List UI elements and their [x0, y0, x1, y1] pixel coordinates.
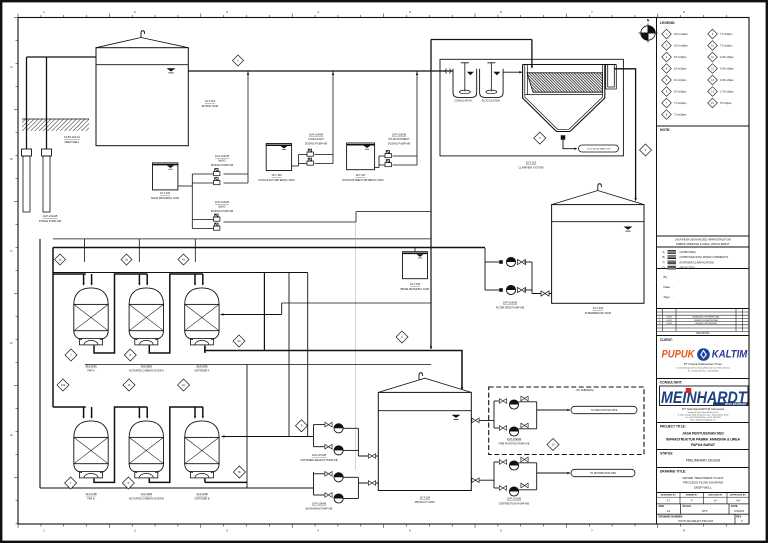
wire: NaOCl suction manifold [178, 185, 192, 187]
svg-text:(REJECTED): (REJECTED) [680, 266, 696, 270]
svg-text:0.45 m3/jam: 0.45 m3/jam [720, 68, 734, 71]
svg-text:INFRA INDONESIA: INFRA INDONESIA [725, 403, 746, 406]
clarifier tank [523, 65, 617, 132]
svg-text:7.5 m3/jam: 7.5 m3/jam [674, 114, 686, 117]
legend item 1 [662, 29, 672, 39]
svg-text:PABRIK AMMONIA & UREA, PAPUA B: PABRIK AMMONIA & UREA, PAPUA BARAT [676, 242, 730, 246]
wire: bypass down line [430, 71, 432, 349]
legend item 2 [662, 41, 672, 51]
pump 19-P-108A/B backwash pumps [325, 471, 332, 476]
deep well 1 casing [22, 149, 32, 156]
wire: regent pump manifolds [314, 424, 325, 426]
svg-text:19-F-102B: 19-F-102B [141, 493, 153, 496]
wire: softener outlet [204, 478, 206, 482]
svg-text:02/24: 02/24 [667, 320, 673, 322]
wire: main raw water line [188, 70, 453, 72]
vent intermediate tank [598, 184, 602, 191]
svg-text:SOFTENER REGENT PUMP A/B: SOFTENER REGENT PUMP A/B [300, 459, 337, 462]
svg-text:INTERMEDIATE TANK: INTERMEDIATE TANK [585, 311, 612, 315]
svg-text:Date: Date [664, 285, 671, 289]
svg-text:CHECKED BY: CHECKED BY [708, 495, 723, 497]
svg-text:19-T-108: 19-T-108 [410, 283, 421, 286]
svg-text:03/24: 03/24 [667, 317, 673, 319]
wire: fire pump piping [471, 419, 494, 421]
svg-text:A: A [663, 250, 665, 254]
svg-text:REVISIONS: REVISIONS [696, 332, 709, 335]
svg-text:DATE: DATE [731, 505, 738, 508]
svg-text:PMF A: PMF A [87, 370, 95, 373]
legend item 9 [708, 29, 718, 39]
svg-text:16.5 m3/jam: 16.5 m3/jam [674, 45, 688, 48]
svg-text:TO SLUDGE TANK STP: TO SLUDGE TANK STP [587, 147, 611, 150]
svg-text:Email : info@meinhardtgroup.co: Email : info@meinhardtgroup.com [690, 419, 716, 422]
svg-text:STATUS:: STATUS: [660, 452, 673, 456]
svg-text:PRODUCT TANK: PRODUCT TANK [415, 500, 435, 504]
tank 19-T-105 NaOCl metering tank [153, 163, 178, 190]
legend item 3 [662, 52, 672, 62]
svg-text:TO DISTRIBUTION PIPE: TO DISTRIBUTION PIPE [590, 473, 616, 475]
wire: coagulant suction [292, 165, 299, 167]
wire: pH discharge [393, 155, 418, 157]
node diamond 1 [233, 55, 244, 66]
svg-text:19-P-108A/B: 19-P-108A/B [312, 503, 327, 506]
wire: filter feed suction [532, 293, 552, 295]
svg-text:NaOCl METERING TANK: NaOCl METERING TANK [151, 197, 180, 200]
level mark intake tank [167, 68, 176, 73]
svg-text:7.5 m3/jam: 7.5 m3/jam [720, 45, 732, 48]
wire: vessel 1 to 2 row [94, 274, 147, 353]
svg-text:DOSING PUMP A/B: DOSING PUMP A/B [305, 143, 328, 146]
svg-text:19-T-101: 19-T-101 [205, 99, 216, 103]
node diamond 2 [640, 144, 652, 156]
wire: vessel 2 to 3 row [149, 407, 203, 482]
svg-text:B: B [663, 255, 665, 259]
svg-text:DRAWING TITLE:: DRAWING TITLE: [660, 469, 686, 473]
svg-text:PRELIMINARY DESIGN: PRELIMINARY DESIGN [686, 459, 721, 463]
tank 19-T-101 intake tank [96, 48, 188, 146]
svg-text:PAPUA BARAT: PAPUA BARAT [691, 443, 716, 447]
battery limit line [355, 222, 357, 470]
svg-text:JASA PENYUSUNAN DED: JASA PENYUSUNAN DED [682, 432, 724, 436]
svg-text:NaOCl: NaOCl [218, 206, 226, 209]
svg-text:B: B [10, 157, 12, 161]
svg-text:F: F [691, 499, 693, 503]
svg-text:DOSING PUMP A/B: DOSING PUMP A/B [388, 143, 411, 146]
svg-text:19-T-104: 19-T-104 [420, 495, 431, 499]
svg-text:LEGEND:: LEGEND: [660, 21, 675, 25]
wire: vessel 1 to 2 row [94, 407, 147, 482]
tank 19-T-108 brine metering tank [403, 252, 428, 279]
svg-text:19-P-102A/B: 19-P-102A/B [215, 155, 230, 158]
vent intake tank [141, 31, 145, 38]
svg-text:7.5 m3/jam: 7.5 m3/jam [720, 33, 732, 36]
svg-text:(APPROVED): (APPROVED) [680, 250, 696, 254]
wire: well risers to intake header [26, 57, 28, 149]
legend item 4 [662, 64, 672, 74]
tank 19-T-103 intermediate tank [552, 205, 644, 304]
svg-text:CLARIFIER SYSTEM: CLARIFIER SYSTEM [519, 165, 544, 169]
wire: NaOCl set2 suction [192, 219, 213, 221]
lamella plates hatch [527, 73, 603, 92]
flag to fire fighting pipe [571, 406, 637, 413]
svg-text:10a: 10a [61, 383, 66, 387]
svg-text:07/03/24: 07/03/24 [734, 509, 745, 513]
svg-text:DEEP WELL: DEEP WELL [694, 485, 712, 489]
legend item 13 [708, 75, 718, 85]
svg-text:8.5 m3/jam: 8.5 m3/jam [674, 56, 686, 59]
svg-text:19-T-106: 19-T-106 [271, 174, 282, 177]
svg-text:19-P-110A/B: 19-P-110A/B [507, 498, 521, 501]
svg-text:PT. Meinhardt EPCM Indonesia: PT. Meinhardt EPCM Indonesia [682, 407, 724, 411]
svg-text:NaOCl: NaOCl [218, 160, 226, 163]
svg-text::: : [674, 285, 675, 289]
wire: row1 product header to product tank [205, 347, 462, 389]
svg-text:75 m3/jam: 75 m3/jam [720, 102, 732, 105]
svg-text:INTAKE PUMP A/B: INTAKE PUMP A/B [39, 219, 61, 223]
wire: row2 manifold [53, 406, 86, 408]
wire: softener outlet [204, 345, 206, 353]
wire: drain header row1 [85, 364, 431, 366]
svg-text:FLOCCULATION: FLOCCULATION [482, 99, 501, 102]
wire: regen to softener B [222, 436, 314, 438]
wire: pH suction [375, 167, 379, 169]
svg-text:Tel : +62 548 41202 Fax : +62: Tel : +62 548 41202 Fax : +62 548 41616 [688, 370, 719, 372]
flag to distribution pipe [571, 469, 635, 476]
svg-text:PROJECT TITLE:: PROJECT TITLE: [660, 424, 686, 428]
wire: filter feed header [53, 247, 485, 249]
svg-text:8.0 m3/jam: 8.0 m3/jam [674, 79, 686, 82]
svg-text:N: N [647, 19, 650, 23]
clarifier system box [440, 59, 623, 156]
svg-text:COAGULANT METERING TANK: COAGULANT METERING TANK [258, 179, 295, 182]
title block outline [656, 18, 658, 525]
vessel 19-F-101B PMF B [74, 421, 108, 478]
wire: backwash pump manifolds [314, 473, 325, 475]
svg-text:BACKWASH PUMP A/B: BACKWASH PUMP A/B [306, 507, 333, 510]
svg-text:INTAKE TANK: INTAKE TANK [202, 104, 219, 108]
legend item 5 [662, 75, 672, 85]
svg-text:CONSULTANT:: CONSULTANT: [660, 381, 682, 385]
svg-text::: : [674, 295, 675, 299]
svg-text:E: E [10, 433, 12, 437]
vessel 19-F-102A ACTIVATED CARBON FILTER A [129, 288, 163, 345]
svg-text:SOFTENER B: SOFTENER B [194, 498, 210, 501]
svg-text:PUPUK: PUPUK [662, 349, 696, 361]
legend item 6 [662, 87, 672, 97]
tank 19-T-106 coagulant metering tank [266, 144, 291, 171]
svg-text:SOFTENER A: SOFTENER A [194, 370, 210, 373]
wire: filter inlet manifold row1 [52, 248, 54, 408]
svg-text:NTS: NTS [702, 509, 708, 513]
vessel 19-F-103B SOFTENER B [185, 421, 219, 478]
svg-text:8.5 m3/jam: 8.5 m3/jam [674, 68, 686, 71]
wire: mid header [53, 272, 308, 274]
svg-text:19-F-101B: 19-F-101B [85, 493, 97, 496]
svg-text:16.5 m3/jam: 16.5 m3/jam [674, 33, 688, 36]
upper distribution header [53, 238, 431, 240]
svg-text:1.75 m3/jam: 1.75 m3/jam [720, 91, 734, 94]
wire: vessel 2 to 3 row [149, 274, 203, 353]
svg-text:01/24: 01/24 [667, 323, 673, 325]
svg-text:NOTE:: NOTE: [660, 128, 671, 132]
wire: riser to clarifier feed [430, 40, 432, 72]
svg-text:SCALE: SCALE [683, 505, 692, 508]
svg-text:DRAWN BY: DRAWN BY [686, 494, 698, 497]
svg-text:FIRE FIGHTING PUMP A/B: FIRE FIGHTING PUMP A/B [499, 443, 530, 446]
legend item 14 [708, 87, 718, 97]
vessel 19-F-103A SOFTENER A [185, 288, 219, 345]
svg-text:19-F-103A: 19-F-103A [196, 365, 208, 368]
wire: backwash drain vertical [39, 239, 41, 488]
svg-text:AW: AW [735, 499, 741, 503]
pump 19-P-110A/B distribution pumps [499, 460, 506, 465]
svg-text:KALTIM: KALTIM [712, 349, 748, 361]
svg-text:APPROVED BY: APPROVED BY [730, 494, 746, 497]
vessel 19-F-101A PMF A [74, 288, 108, 345]
wire: mid vertical tee [263, 273, 265, 351]
legend item 15 [708, 98, 718, 108]
svg-text:19-F-102A: 19-F-102A [141, 365, 153, 368]
flocculation beaker [480, 69, 504, 98]
svg-text:COAGULATION: COAGULATION [454, 99, 471, 102]
wire: row2 product line [205, 481, 247, 483]
svg-text:7.5 m3/jam: 7.5 m3/jam [674, 102, 686, 105]
svg-text:DOSING PUMP A/B: DOSING PUMP A/B [211, 164, 234, 167]
north compass [639, 24, 658, 43]
svg-text:19-BT-102-01: 19-BT-102-01 [64, 135, 80, 139]
svg-text:0.45 m3/jam: 0.45 m3/jam [720, 79, 734, 82]
wire: coagulant discharge [315, 154, 334, 156]
wire: floc to clarifier [503, 71, 521, 73]
svg-text:PH ADJUSTMENT METERING TANK: PH ADJUSTMENT METERING TANK [342, 179, 384, 182]
wire: filter feed discharge [484, 248, 486, 290]
svg-text:ST: ST [666, 499, 670, 503]
legend item 11 [708, 52, 718, 62]
pipe break symbol [446, 69, 451, 74]
vessel 19-F-102B ACTIVATED CARBON FILTER B [129, 421, 163, 478]
pump 19-P-107A/B softener regent pumps [325, 422, 332, 427]
svg-text:ISSUED FOR APPROVAL: ISSUED FOR APPROVAL [694, 319, 719, 322]
svg-text:(APPROVED WITH MINOR COMMENTS): (APPROVED WITH MINOR COMMENTS) [680, 255, 729, 259]
wire: NaOCl set2 discharge long line [224, 221, 357, 223]
svg-text:DISTRIBUTION PUMP A/B: DISTRIBUTION PUMP A/B [499, 502, 529, 505]
node diamonds filter area [65, 349, 77, 361]
svg-text:19-F-101A: 19-F-101A [85, 365, 97, 368]
wire: distribution pump piping [471, 479, 494, 481]
wire: backwash to softener A [221, 314, 282, 316]
svg-text:(FURTHER CLARIFICATION): (FURTHER CLARIFICATION) [680, 260, 714, 264]
svg-text:DOSING PUMP A/B: DOSING PUMP A/B [211, 210, 234, 213]
svg-text:19-P-107A/B: 19-P-107A/B [312, 454, 327, 457]
svg-text:By: By [664, 275, 668, 279]
sludge valve [561, 135, 566, 140]
svg-text:BRINE METERING TANK: BRINE METERING TANK [401, 288, 430, 291]
svg-text:19-P-104A/B: 19-P-104A/B [309, 134, 324, 137]
svg-text:PKTP-DD-DELWT-PFD-004: PKTP-DD-DELWT-PFD-004 [678, 519, 713, 523]
svg-text:JASA PENYUSUNAN DED INFRASTRUK: JASA PENYUSUNAN DED INFRASTRUKTUR [675, 237, 731, 241]
svg-text:0.45 m3/jam: 0.45 m3/jam [720, 56, 734, 59]
revision table [657, 311, 750, 313]
tank 19-T-104 product tank [378, 392, 471, 490]
legend item 12 [708, 64, 718, 74]
legend item 8 [662, 110, 672, 120]
svg-text:FILTER FEED PUMP A/B: FILTER FEED PUMP A/B [496, 306, 525, 309]
svg-text:PMF B: PMF B [87, 498, 95, 501]
pump 19-P-109A/B fire fighting pumps (dashed amend box) [489, 387, 644, 455]
deep well 2 casing [42, 149, 52, 156]
legend item 7 [662, 98, 672, 108]
legend item 10 [708, 41, 718, 51]
svg-text:19-P-101A/B: 19-P-101A/B [43, 214, 58, 218]
wire: weir outlet to intermediate tank [614, 69, 635, 200]
svg-text:19-T-105: 19-T-105 [160, 192, 171, 195]
clarifier water line [525, 94, 603, 96]
svg-text:19-T-102: 19-T-102 [526, 161, 537, 165]
svg-text:TO FIRE FIGHTING PIPE: TO FIRE FIGHTING PIPE [591, 410, 618, 412]
svg-text:CLIENT:: CLIENT: [660, 338, 673, 342]
pump 19-P-106A/B filter feed pumps [499, 260, 503, 264]
flag to sludge tank [579, 145, 619, 152]
svg-text:19-P-109A/B: 19-P-109A/B [507, 438, 522, 441]
svg-text:19-P-105A/B: 19-P-105A/B [392, 134, 407, 137]
vent product tank [419, 373, 423, 380]
svg-text:PROCESS FLOW DIAGRAM: PROCESS FLOW DIAGRAM [683, 481, 724, 485]
wire: sludge line [563, 140, 576, 149]
wire: NaOCl dosing set1 discharge [224, 173, 249, 175]
svg-text:ACTIVATED CARBON FILTER B: ACTIVATED CARBON FILTER B [129, 498, 164, 501]
svg-text:DEEP WELL: DEEP WELL [65, 140, 80, 144]
svg-text:19-T-107: 19-T-107 [355, 174, 366, 177]
tank 19-T-107 pH adjustment metering tank [347, 143, 375, 170]
svg-text:19-P-106A/B: 19-P-106A/B [503, 302, 518, 305]
svg-text:8.0 m3/jam: 8.0 m3/jam [674, 91, 686, 94]
svg-text:19-T-103: 19-T-103 [593, 306, 604, 310]
ruler ticks left [14, 18, 18, 524]
svg-text:Sign: Sign [664, 295, 670, 299]
svg-text:ACTIVATED CARBON FILTER A: ACTIVATED CARBON FILTER A [129, 370, 164, 373]
level mark intermediate tank [624, 227, 633, 232]
node diamond 3 [396, 331, 408, 343]
clarifier effluent weir [606, 65, 617, 90]
svg-text:PT Pupuk Kalimantan Timur: PT Pupuk Kalimantan Timur [684, 362, 722, 366]
svg-text:19-F-103B: 19-F-103B [196, 493, 208, 496]
level mark product tank [452, 415, 461, 420]
svg-text:DESIGNED BY: DESIGNED BY [661, 495, 677, 497]
svg-text:WATER TREATMENT PLANT: WATER TREATMENT PLANT [682, 476, 723, 480]
svg-text:A1: A1 [667, 509, 671, 513]
node diamond 6 [534, 132, 546, 144]
svg-text:A: A [10, 65, 12, 69]
svg-text::: : [674, 275, 675, 279]
svg-text:INFRASTRUKTUR PABRIK AMMONIA &: INFRASTRUKTUR PABRIK AMMONIA & UREA [666, 437, 740, 441]
svg-text:PH ADJUSTMENT: PH ADJUSTMENT [389, 138, 410, 141]
coagulation beaker [453, 69, 477, 98]
svg-text:(BY AMENDAN): (BY AMENDAN) [576, 389, 593, 392]
svg-text:19-P-103A/B: 19-P-103A/B [215, 201, 230, 204]
signoff table [679, 493, 681, 504]
node diamond 10 [547, 439, 559, 451]
svg-text:COAGULANT: COAGULANT [308, 138, 324, 141]
wire: regent inlet [289, 436, 314, 438]
svg-text:REISSUED FOR APPROVAL: REISSUED FOR APPROVAL [692, 316, 720, 319]
svg-text:ISSUED FOR REVIEW: ISSUED FOR REVIEW [695, 323, 717, 325]
svg-text:SIZE: SIZE [659, 505, 665, 508]
